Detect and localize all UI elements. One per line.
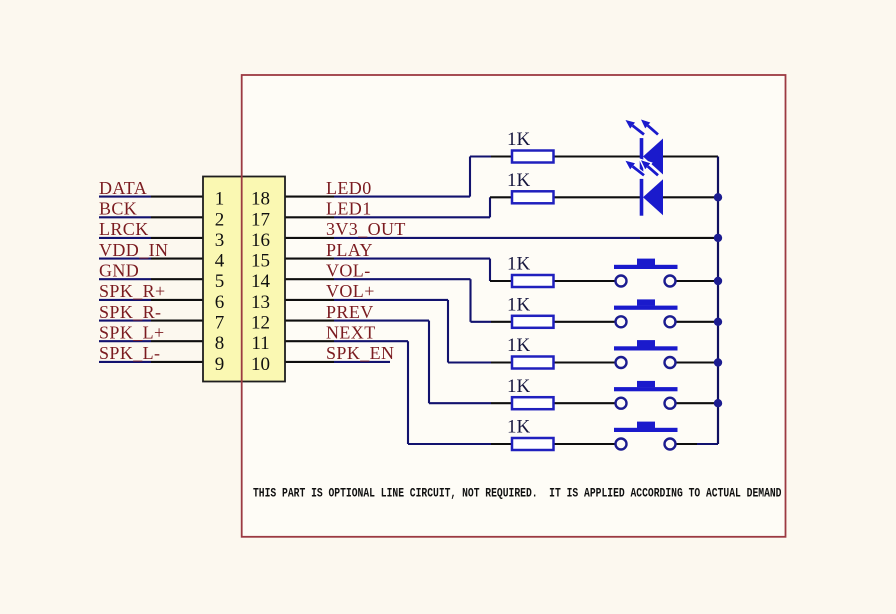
svg-text:15: 15: [251, 251, 270, 272]
svg-text:1K: 1K: [507, 376, 531, 397]
svg-text:SPK_R-: SPK_R-: [99, 302, 161, 322]
svg-text:2: 2: [215, 209, 225, 230]
svg-text:SPK_L+: SPK_L+: [99, 322, 165, 342]
svg-text:1K: 1K: [507, 254, 531, 275]
svg-text:13: 13: [251, 292, 270, 313]
svg-text:5: 5: [215, 271, 225, 292]
svg-text:BCK: BCK: [99, 199, 137, 219]
svg-text:1K: 1K: [507, 417, 531, 438]
svg-text:GND: GND: [99, 260, 139, 280]
svg-text:PREV: PREV: [326, 302, 374, 322]
svg-text:LED1: LED1: [326, 199, 372, 219]
svg-text:7: 7: [215, 313, 225, 334]
svg-text:3: 3: [215, 230, 225, 251]
svg-text:1K: 1K: [507, 129, 531, 150]
svg-text:1: 1: [215, 189, 225, 210]
svg-text:18: 18: [251, 189, 270, 210]
svg-text:1K: 1K: [507, 335, 531, 356]
svg-text:SPK_L-: SPK_L-: [99, 343, 160, 363]
svg-text:8: 8: [215, 333, 225, 354]
svg-text:16: 16: [251, 230, 270, 251]
svg-text:SPK_R+: SPK_R+: [99, 281, 166, 301]
svg-text:9: 9: [215, 354, 225, 375]
svg-text:4: 4: [215, 251, 225, 272]
svg-text:NEXT: NEXT: [326, 322, 376, 342]
svg-text:THIS PART IS OPTIONAL LINE CIR: THIS PART IS OPTIONAL LINE CIRCUIT, NOT …: [253, 487, 782, 501]
svg-text:11: 11: [251, 333, 269, 354]
svg-text:VOL-: VOL-: [326, 260, 371, 280]
svg-text:14: 14: [251, 271, 271, 292]
svg-text:PLAY: PLAY: [326, 240, 373, 260]
svg-text:12: 12: [251, 313, 270, 334]
svg-text:10: 10: [251, 354, 270, 375]
svg-text:DATA: DATA: [99, 178, 147, 198]
svg-text:VDD_IN: VDD_IN: [99, 240, 168, 260]
svg-text:1K: 1K: [507, 170, 531, 191]
svg-text:6: 6: [215, 292, 225, 313]
svg-text:LED0: LED0: [326, 178, 372, 198]
svg-text:LRCK: LRCK: [99, 219, 149, 239]
svg-text:VOL+: VOL+: [326, 281, 375, 301]
svg-text:3V3_OUT: 3V3_OUT: [326, 219, 406, 239]
svg-text:SPK_EN: SPK_EN: [326, 343, 394, 363]
svg-text:17: 17: [251, 209, 270, 230]
svg-text:1K: 1K: [507, 294, 531, 315]
